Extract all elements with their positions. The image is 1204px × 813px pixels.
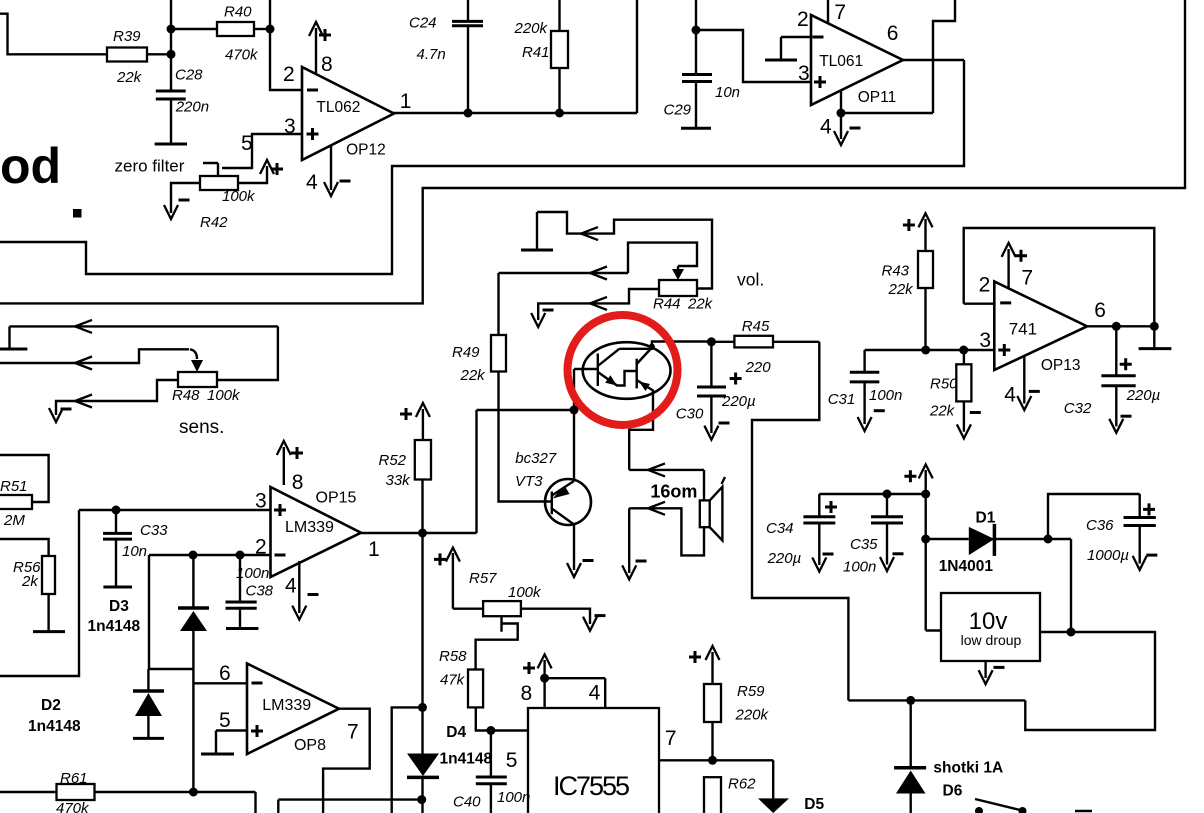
svg-text:22k: 22k	[929, 403, 956, 420]
svg-text:5: 5	[219, 709, 231, 732]
svg-text:D6: D6	[943, 783, 963, 800]
svg-text:R51: R51	[0, 478, 28, 495]
svg-text:LM339: LM339	[285, 519, 334, 536]
svg-text:100n: 100n	[497, 789, 530, 806]
svg-text:R42: R42	[200, 214, 228, 231]
svg-text:10n: 10n	[122, 543, 147, 560]
svg-text:33k: 33k	[386, 472, 412, 489]
svg-text:10v: 10v	[969, 608, 1008, 635]
svg-text:C33: C33	[140, 522, 168, 539]
svg-text:7: 7	[347, 721, 359, 744]
svg-text:22k: 22k	[460, 367, 487, 384]
svg-text:100k: 100k	[207, 387, 241, 404]
svg-text:1n4148: 1n4148	[440, 751, 493, 768]
svg-text:22k: 22k	[687, 296, 714, 313]
svg-text:6: 6	[219, 662, 231, 685]
svg-text:C34: C34	[766, 520, 794, 537]
svg-text:C35: C35	[850, 536, 878, 553]
svg-text:7: 7	[1021, 267, 1033, 290]
svg-text:R50: R50	[930, 376, 958, 393]
svg-text:R41: R41	[522, 44, 550, 61]
svg-text:OP12: OP12	[346, 141, 386, 158]
svg-text:R40: R40	[224, 4, 252, 21]
svg-text:1N4001: 1N4001	[939, 558, 994, 575]
svg-text:220k: 220k	[735, 707, 770, 724]
svg-text:R58: R58	[439, 648, 467, 665]
svg-text:R52: R52	[379, 452, 407, 469]
svg-text:R62: R62	[728, 776, 756, 793]
svg-text:IC7555: IC7555	[553, 771, 630, 801]
svg-text:TL062: TL062	[316, 99, 360, 116]
svg-text:R43: R43	[882, 263, 910, 280]
svg-text:R57: R57	[469, 570, 497, 587]
svg-text:4: 4	[306, 171, 318, 194]
svg-text:OP15: OP15	[316, 490, 357, 507]
svg-text:470k: 470k	[225, 47, 259, 64]
svg-text:5: 5	[506, 749, 518, 772]
svg-text:7: 7	[834, 1, 846, 24]
svg-text:VT3: VT3	[515, 473, 543, 490]
svg-text:220: 220	[745, 359, 772, 376]
svg-text:220µ: 220µ	[1126, 387, 1161, 404]
svg-text:OP13: OP13	[1041, 357, 1081, 374]
svg-text:C31: C31	[828, 391, 856, 408]
svg-text:2M: 2M	[3, 512, 25, 529]
svg-text:R45: R45	[742, 318, 770, 335]
svg-text:7: 7	[665, 727, 677, 750]
svg-text:220µ: 220µ	[721, 393, 756, 410]
svg-text:vol.: vol.	[737, 270, 764, 290]
svg-text:10n: 10n	[715, 84, 740, 101]
svg-text:R39: R39	[113, 28, 141, 45]
svg-text:1n4148: 1n4148	[28, 718, 81, 735]
svg-text:D3: D3	[109, 598, 129, 615]
svg-text:47k: 47k	[440, 672, 466, 689]
svg-text:6: 6	[887, 22, 899, 45]
svg-text:5: 5	[241, 132, 253, 155]
svg-text:220k: 220k	[514, 20, 549, 37]
svg-text:6: 6	[1094, 299, 1106, 322]
svg-text:2: 2	[283, 63, 295, 86]
svg-text:2: 2	[255, 536, 267, 559]
svg-text:R59: R59	[737, 683, 765, 700]
svg-text:2: 2	[797, 8, 809, 31]
svg-text:C32: C32	[1064, 400, 1092, 417]
svg-text:220µ: 220µ	[767, 550, 802, 567]
svg-text:D2: D2	[41, 697, 61, 714]
svg-text:D4: D4	[446, 724, 466, 741]
svg-text:D1: D1	[976, 510, 996, 527]
svg-text:1000µ: 1000µ	[1087, 547, 1129, 564]
svg-text:3: 3	[979, 329, 991, 352]
svg-text:4: 4	[589, 682, 601, 705]
svg-text:C24: C24	[409, 15, 437, 32]
svg-text:16om: 16om	[650, 482, 697, 502]
svg-text:C36: C36	[1086, 517, 1114, 534]
svg-text:OP8: OP8	[294, 737, 326, 754]
svg-text:1: 1	[400, 90, 412, 113]
svg-text:8: 8	[321, 53, 333, 76]
svg-text:sens.: sens.	[179, 417, 224, 438]
svg-text:zero filter: zero filter	[115, 157, 185, 176]
svg-text:100n: 100n	[843, 559, 876, 576]
svg-text:8: 8	[292, 471, 304, 494]
svg-text:R61: R61	[60, 770, 88, 787]
svg-text:22k: 22k	[116, 69, 143, 86]
svg-text:R48: R48	[172, 387, 200, 404]
svg-text:bc327: bc327	[515, 450, 557, 467]
svg-text:C38: C38	[246, 583, 274, 600]
svg-text:1n4148: 1n4148	[88, 618, 141, 635]
svg-text:C40: C40	[453, 794, 481, 811]
svg-text:22k: 22k	[888, 281, 915, 298]
svg-text:TL061: TL061	[819, 53, 863, 70]
svg-text:D5: D5	[804, 796, 824, 813]
svg-text:3: 3	[255, 490, 267, 513]
svg-text:100k: 100k	[508, 584, 542, 601]
svg-text:220n: 220n	[175, 99, 209, 116]
svg-text:OP11: OP11	[858, 89, 897, 106]
svg-text:4: 4	[285, 575, 297, 598]
svg-text:3: 3	[284, 115, 296, 138]
svg-text:C28: C28	[175, 67, 203, 84]
svg-text:C30: C30	[676, 406, 704, 423]
svg-text:LM339: LM339	[262, 697, 311, 714]
svg-text:C29: C29	[664, 102, 692, 119]
svg-text:od: od	[0, 138, 61, 194]
svg-text:100n: 100n	[869, 387, 902, 404]
svg-text:low droup: low droup	[961, 632, 1022, 648]
svg-text:R44: R44	[653, 296, 681, 313]
svg-text:R49: R49	[452, 344, 480, 361]
svg-text:8: 8	[521, 682, 533, 705]
svg-text:4: 4	[1004, 384, 1016, 407]
svg-text:shotki 1A: shotki 1A	[933, 760, 1003, 777]
svg-text:1: 1	[368, 538, 380, 561]
svg-text:741: 741	[1009, 319, 1037, 338]
svg-text:2: 2	[979, 274, 991, 297]
svg-text:470k: 470k	[56, 800, 90, 813]
svg-text:100n: 100n	[236, 565, 269, 582]
svg-text:3: 3	[798, 62, 810, 85]
svg-text:4.7n: 4.7n	[417, 46, 446, 63]
svg-text:4: 4	[820, 116, 832, 139]
svg-text:100k: 100k	[222, 188, 256, 205]
svg-text:2k: 2k	[21, 573, 39, 590]
